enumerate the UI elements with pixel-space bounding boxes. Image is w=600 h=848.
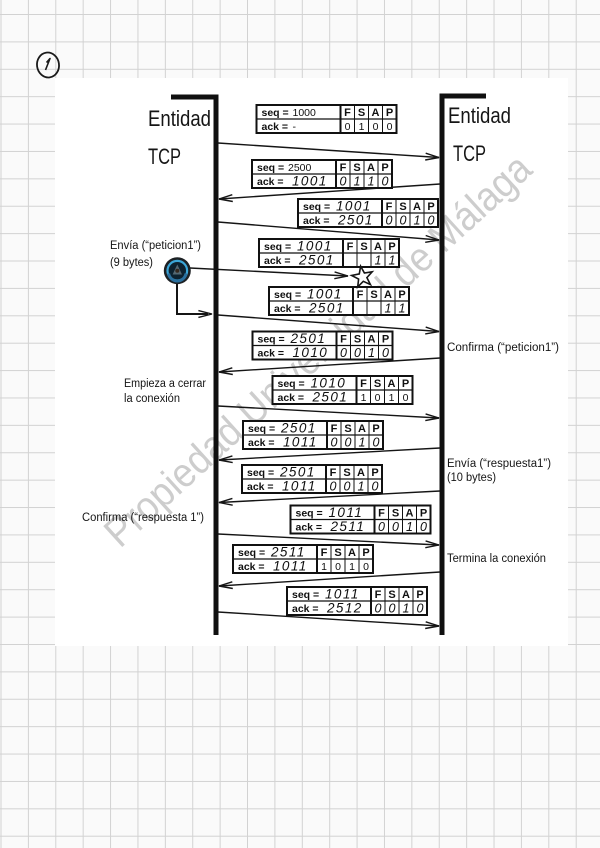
svg-text:1: 1 bbox=[406, 520, 413, 534]
svg-text:S: S bbox=[399, 201, 406, 213]
svg-text:0: 0 bbox=[354, 346, 361, 360]
svg-text:0: 0 bbox=[363, 561, 369, 573]
arrow 12 ACK left to right bbox=[218, 612, 439, 629]
svg-text:1010: 1010 bbox=[293, 345, 329, 360]
svg-text:A: A bbox=[388, 378, 396, 390]
svg-text:-: - bbox=[293, 121, 297, 133]
svg-text:TCP: TCP bbox=[148, 144, 181, 169]
svg-text:0: 0 bbox=[389, 601, 396, 615]
svg-text:2501: 2501 bbox=[298, 253, 335, 268]
svg-text:P: P bbox=[372, 423, 379, 435]
svg-text:P: P bbox=[381, 162, 388, 174]
svg-text:seq =: seq = bbox=[278, 378, 305, 390]
arrow 2 SYN+ACK right to left bbox=[219, 184, 440, 202]
svg-text:0: 0 bbox=[335, 561, 341, 573]
svg-text:0: 0 bbox=[400, 213, 407, 227]
packet box 12 final ACK bbox=[287, 587, 427, 616]
svg-text:P: P bbox=[382, 333, 389, 345]
svg-text:P: P bbox=[402, 378, 409, 390]
svg-text:1: 1 bbox=[359, 435, 366, 449]
svg-text:Confirma (“peticion1”): Confirma (“peticion1”) bbox=[447, 342, 559, 354]
watermark Propiedad Universidad de Malaga bbox=[95, 145, 540, 556]
svg-text:ack =: ack = bbox=[303, 215, 330, 227]
svg-text:Envía (“respuesta1”): Envía (“respuesta1”) bbox=[447, 458, 551, 470]
svg-text:ack =: ack = bbox=[238, 561, 265, 573]
packet box 3 seq 1001 ACK bbox=[298, 199, 438, 228]
svg-text:2511: 2511 bbox=[330, 519, 366, 534]
label Confirma peticion1 bbox=[447, 342, 559, 354]
svg-text:S: S bbox=[388, 589, 395, 601]
svg-text:A: A bbox=[348, 547, 356, 559]
svg-text:A: A bbox=[367, 162, 375, 174]
svg-text:Entidad: Entidad bbox=[148, 106, 211, 131]
label Confirma respuesta 1 bbox=[82, 512, 204, 524]
svg-text:F: F bbox=[321, 547, 328, 559]
label Empieza a cerrar bbox=[124, 378, 206, 405]
svg-text:A: A bbox=[372, 107, 380, 119]
svg-text:S: S bbox=[374, 378, 381, 390]
svg-text:1: 1 bbox=[321, 561, 327, 573]
svg-text:1: 1 bbox=[361, 392, 367, 404]
svg-text:1001: 1001 bbox=[307, 287, 343, 302]
svg-text:S: S bbox=[370, 289, 377, 301]
svg-text:1: 1 bbox=[354, 174, 361, 188]
svg-text:F: F bbox=[331, 423, 338, 435]
svg-text:P: P bbox=[362, 547, 369, 559]
svg-text:A: A bbox=[413, 201, 421, 213]
label Envia peticion1 bbox=[110, 240, 201, 269]
svg-text:1: 1 bbox=[399, 301, 406, 315]
svg-text:Confirma (“respuesta 1”): Confirma (“respuesta 1”) bbox=[82, 512, 204, 524]
svg-text:F: F bbox=[375, 589, 382, 601]
svg-text:1: 1 bbox=[358, 479, 365, 493]
svg-text:0: 0 bbox=[375, 601, 382, 615]
arrow 3 ACK left to right bbox=[218, 222, 439, 242]
svg-text:ack =: ack = bbox=[278, 392, 305, 404]
svg-text:seq =: seq = bbox=[238, 547, 265, 559]
svg-text:seq =: seq = bbox=[258, 333, 285, 345]
svg-text:A: A bbox=[358, 423, 366, 435]
arrow 11 FIN right to left bbox=[219, 572, 440, 589]
svg-text:0: 0 bbox=[345, 121, 351, 133]
svg-text:1: 1 bbox=[403, 601, 410, 615]
svg-text:P: P bbox=[371, 467, 378, 479]
svg-text:0: 0 bbox=[392, 520, 399, 534]
svg-text:0: 0 bbox=[340, 346, 347, 360]
svg-text:P: P bbox=[386, 107, 393, 119]
svg-text:A: A bbox=[357, 467, 365, 479]
svg-text:F: F bbox=[347, 241, 354, 253]
svg-text:F: F bbox=[340, 162, 347, 174]
svg-text:0: 0 bbox=[417, 601, 424, 615]
packet box 10 ack respuesta1 bbox=[291, 505, 431, 534]
circled page number 1 bbox=[35, 51, 60, 79]
svg-text:seq =: seq = bbox=[296, 507, 323, 519]
svg-text:0: 0 bbox=[345, 435, 352, 449]
svg-text:1: 1 bbox=[368, 174, 375, 188]
svg-text:0: 0 bbox=[372, 479, 379, 493]
arrow 5 retransmission left to right bbox=[218, 315, 439, 334]
svg-text:A: A bbox=[374, 241, 382, 253]
svg-text:1: 1 bbox=[359, 121, 365, 133]
svg-text:seq =: seq = bbox=[303, 201, 330, 213]
svg-text:seq =: seq = bbox=[247, 467, 274, 479]
svg-text:la conexión: la conexión bbox=[124, 393, 180, 405]
svg-text:0: 0 bbox=[373, 121, 379, 133]
svg-text:1: 1 bbox=[385, 301, 392, 315]
svg-text:Entidad: Entidad bbox=[448, 103, 511, 128]
svg-text:1: 1 bbox=[389, 392, 395, 404]
label Termina la conexion bbox=[447, 553, 546, 565]
svg-text:ack =: ack = bbox=[247, 481, 274, 493]
svg-text:seq =: seq = bbox=[292, 589, 319, 601]
svg-text:ack =: ack = bbox=[296, 521, 323, 533]
packet box 9 respuesta1 data bbox=[242, 465, 382, 494]
svg-text:0: 0 bbox=[420, 520, 427, 534]
svg-text:ack =: ack = bbox=[258, 347, 285, 359]
svg-text:0: 0 bbox=[428, 213, 435, 227]
svg-text:0: 0 bbox=[373, 435, 380, 449]
svg-text:2501: 2501 bbox=[280, 421, 317, 436]
svg-text:0: 0 bbox=[387, 121, 393, 133]
svg-text:Envía (“peticion1”): Envía (“peticion1”) bbox=[110, 240, 201, 252]
svg-text:seq =: seq = bbox=[248, 423, 275, 435]
packet box 6 ack peticion1 bbox=[253, 331, 393, 360]
svg-text:1001: 1001 bbox=[292, 174, 328, 189]
timeout clock icon bbox=[164, 257, 191, 284]
right entity timeline bbox=[442, 96, 486, 635]
svg-text:Termina la conexión: Termina la conexión bbox=[447, 553, 546, 565]
arrow 10 ACK left to right bbox=[218, 534, 439, 548]
svg-text:1011: 1011 bbox=[273, 559, 308, 574]
svg-text:F: F bbox=[344, 107, 351, 119]
svg-text:P: P bbox=[398, 289, 405, 301]
svg-text:F: F bbox=[340, 333, 347, 345]
svg-text:2501: 2501 bbox=[308, 301, 345, 316]
packet box 2 seq 2500 SYN ACK bbox=[252, 160, 392, 189]
svg-text:0: 0 bbox=[378, 520, 385, 534]
svg-text:2501: 2501 bbox=[279, 465, 316, 480]
svg-text:S: S bbox=[334, 547, 341, 559]
svg-text:F: F bbox=[386, 201, 393, 213]
arrow 8 ACK right to left bbox=[219, 448, 440, 463]
svg-text:A: A bbox=[406, 507, 414, 519]
svg-text:0: 0 bbox=[403, 392, 409, 404]
svg-text:ack =: ack = bbox=[257, 176, 284, 188]
packet box 4 lost data segment bbox=[259, 239, 399, 268]
svg-text:ack =: ack = bbox=[274, 303, 301, 315]
white sheet bbox=[55, 78, 568, 646]
svg-text:1: 1 bbox=[414, 213, 421, 227]
svg-text:2511: 2511 bbox=[270, 545, 306, 560]
svg-text:seq =: seq = bbox=[274, 289, 301, 301]
left entity timeline bbox=[171, 97, 216, 635]
svg-text:1011: 1011 bbox=[325, 587, 360, 602]
svg-text:2501: 2501 bbox=[337, 213, 374, 228]
svg-text:Empieza a cerrar: Empieza a cerrar bbox=[124, 378, 206, 390]
label Envia respuesta1 bbox=[447, 458, 551, 484]
svg-text:F: F bbox=[360, 378, 367, 390]
packet box 5 retransmitted data bbox=[269, 287, 409, 316]
svg-text:S: S bbox=[343, 467, 350, 479]
svg-text:0: 0 bbox=[340, 174, 347, 188]
svg-text:0: 0 bbox=[344, 479, 351, 493]
arrow 1 SYN left to right bbox=[218, 143, 439, 160]
svg-text:0: 0 bbox=[331, 435, 338, 449]
packet box 11 FIN right bbox=[233, 545, 373, 574]
svg-text:2501: 2501 bbox=[312, 390, 349, 405]
svg-text:2501: 2501 bbox=[290, 331, 327, 346]
svg-text:0: 0 bbox=[330, 479, 337, 493]
svg-text:1011: 1011 bbox=[282, 479, 317, 494]
svg-text:TCP: TCP bbox=[453, 141, 486, 166]
arrow 7 FIN left to right bbox=[218, 406, 439, 421]
svg-text:1: 1 bbox=[389, 253, 396, 267]
svg-text:F: F bbox=[330, 467, 337, 479]
svg-text:A: A bbox=[384, 289, 392, 301]
svg-text:seq =: seq = bbox=[257, 162, 284, 174]
svg-text:P: P bbox=[427, 201, 434, 213]
svg-text:F: F bbox=[357, 289, 364, 301]
svg-text:(10 bytes): (10 bytes) bbox=[447, 472, 496, 484]
arrow 4 lost segment to star bbox=[190, 268, 348, 279]
svg-text:ack =: ack = bbox=[248, 437, 275, 449]
packet box 7 FIN bbox=[273, 376, 413, 405]
svg-text:1001: 1001 bbox=[336, 199, 372, 214]
svg-text:0: 0 bbox=[375, 392, 381, 404]
timeout path from clock bbox=[177, 283, 212, 317]
svg-text:A: A bbox=[368, 333, 376, 345]
packet box 1 seq 1000 SYN bbox=[257, 105, 397, 133]
svg-text:1: 1 bbox=[349, 561, 355, 573]
svg-text:2500: 2500 bbox=[288, 162, 312, 174]
svg-text:A: A bbox=[402, 589, 410, 601]
svg-text:S: S bbox=[392, 507, 399, 519]
svg-text:1011: 1011 bbox=[329, 505, 364, 520]
arrow 9 data right to left bbox=[219, 491, 440, 505]
svg-text:ack =: ack = bbox=[262, 121, 289, 133]
svg-text:2512: 2512 bbox=[326, 601, 363, 616]
svg-text:0: 0 bbox=[382, 346, 389, 360]
svg-text:ack =: ack = bbox=[292, 603, 319, 615]
svg-text:S: S bbox=[360, 241, 367, 253]
svg-text:P: P bbox=[388, 241, 395, 253]
svg-text:1: 1 bbox=[375, 253, 382, 267]
label Entidad TCP right bbox=[448, 103, 511, 166]
svg-text:1001: 1001 bbox=[297, 239, 333, 254]
svg-text:S: S bbox=[353, 162, 360, 174]
svg-text:1000: 1000 bbox=[293, 107, 317, 119]
svg-text:seq =: seq = bbox=[262, 107, 289, 119]
svg-text:S: S bbox=[344, 423, 351, 435]
packet box 8 ack FIN bbox=[243, 421, 383, 450]
arrow 6 ACK right to left bbox=[219, 358, 440, 375]
svg-text:S: S bbox=[354, 333, 361, 345]
svg-text:1: 1 bbox=[368, 346, 375, 360]
svg-text:seq =: seq = bbox=[264, 241, 291, 253]
svg-text:ack =: ack = bbox=[264, 255, 291, 267]
svg-text:F: F bbox=[378, 507, 385, 519]
svg-text:P: P bbox=[420, 507, 427, 519]
label Entidad TCP left bbox=[148, 106, 211, 169]
lost packet star bbox=[352, 266, 373, 287]
svg-text:1011: 1011 bbox=[283, 435, 318, 450]
svg-text:0: 0 bbox=[382, 174, 389, 188]
svg-text:P: P bbox=[416, 589, 423, 601]
svg-text:0: 0 bbox=[386, 213, 393, 227]
svg-text:1010: 1010 bbox=[311, 376, 347, 391]
svg-text:(9 bytes): (9 bytes) bbox=[110, 257, 153, 269]
svg-text:S: S bbox=[358, 107, 365, 119]
